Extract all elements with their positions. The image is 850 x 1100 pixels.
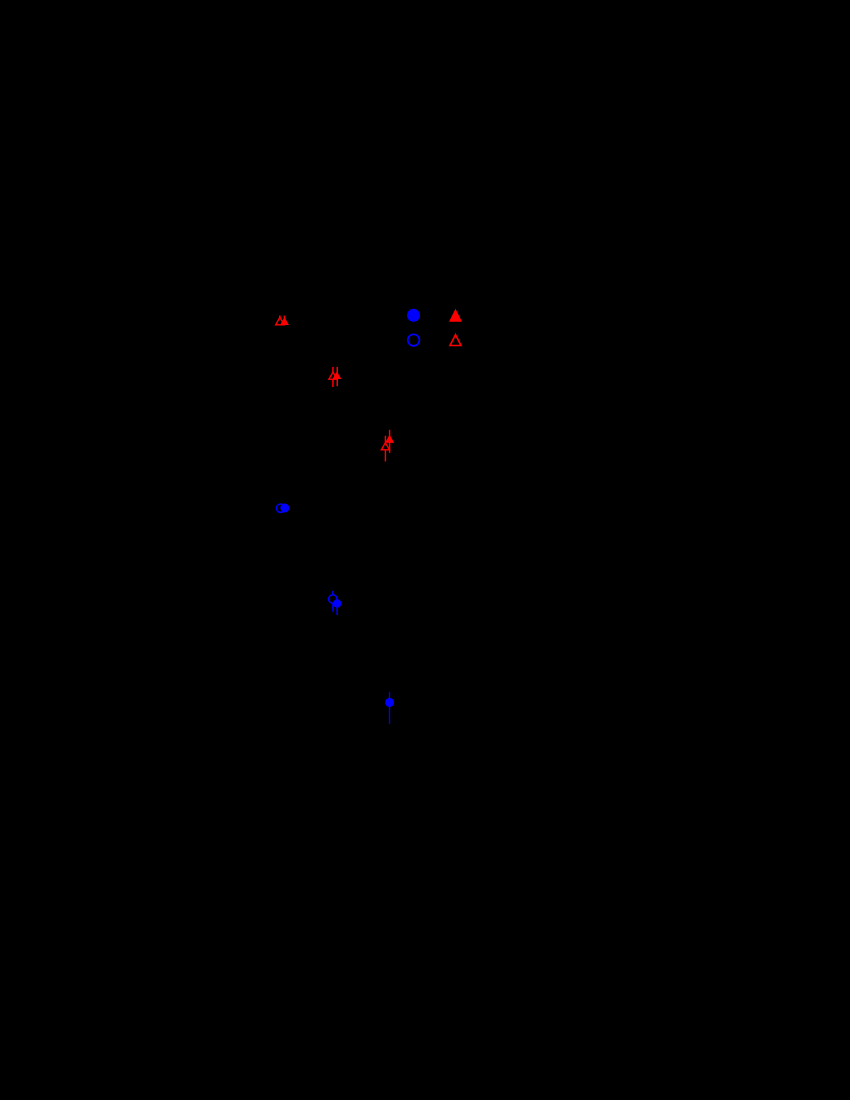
error bar E-open: [332, 591, 334, 612]
open triangle C: [381, 443, 389, 450]
legend open triangle: [450, 335, 461, 346]
error bar A-open: [279, 316, 281, 324]
open circle D: [276, 504, 284, 512]
open triangle B: [329, 372, 337, 379]
error bar F: [389, 692, 391, 724]
error bar E-filled: [336, 602, 338, 615]
error bar C-open: [384, 436, 386, 462]
filled circle F: [385, 698, 394, 707]
error bar C-filled: [389, 430, 391, 453]
legend filled triangle: [449, 309, 462, 322]
open circle E: [329, 595, 337, 603]
filled triangle C: [385, 435, 394, 443]
filled circle D: [280, 504, 289, 513]
open triangle A: [276, 317, 284, 325]
filled circle E: [333, 599, 341, 607]
legend open circle: [408, 334, 420, 346]
error bar A-filled: [283, 316, 285, 323]
filled triangle B: [333, 371, 342, 379]
error bar B-filled: [336, 367, 338, 386]
legend filled circle: [407, 309, 420, 322]
filled triangle A: [280, 317, 289, 325]
error bar B-open: [332, 367, 334, 387]
